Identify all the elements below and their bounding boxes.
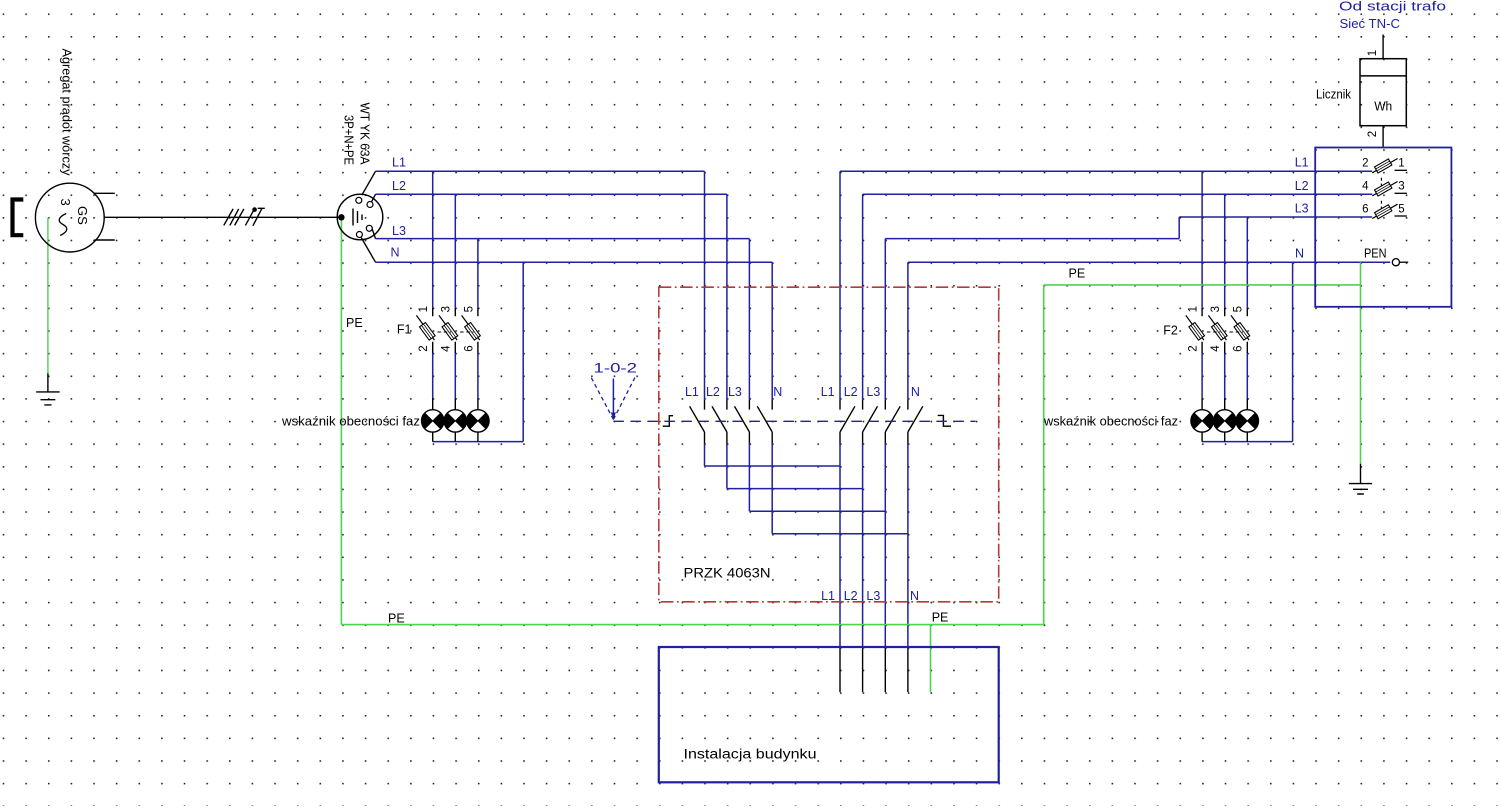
svg-text:wskaźnik obecności faz: wskaźnik obecności faz bbox=[281, 415, 420, 429]
svg-text:Wh: Wh bbox=[1374, 100, 1392, 114]
svg-text:3: 3 bbox=[1210, 306, 1222, 312]
svg-text:Agregat prądot wórczy: Agregat prądot wórczy bbox=[60, 49, 74, 177]
svg-text:PRZK 4063N: PRZK 4063N bbox=[684, 566, 771, 581]
svg-text:PEN: PEN bbox=[1364, 246, 1387, 260]
svg-text:L3: L3 bbox=[866, 589, 880, 603]
svg-text:1: 1 bbox=[1398, 158, 1404, 170]
svg-text:6: 6 bbox=[463, 345, 475, 351]
svg-text:L2: L2 bbox=[392, 179, 406, 193]
svg-text:3P+N+PE: 3P+N+PE bbox=[342, 115, 356, 165]
svg-text:N: N bbox=[773, 385, 782, 399]
svg-text:L1: L1 bbox=[1295, 155, 1309, 169]
svg-text:WT YK 63A: WT YK 63A bbox=[358, 103, 372, 166]
svg-text:3: 3 bbox=[441, 306, 453, 312]
svg-text:L2: L2 bbox=[1295, 179, 1309, 193]
svg-text:PE: PE bbox=[932, 611, 949, 625]
svg-text:3: 3 bbox=[1398, 181, 1404, 193]
svg-text:N: N bbox=[1295, 246, 1304, 260]
svg-text:3: 3 bbox=[58, 199, 73, 206]
svg-text:wskaźnik obecności faz: wskaźnik obecności faz bbox=[1043, 415, 1178, 429]
svg-text:L3: L3 bbox=[392, 224, 406, 238]
svg-text:N: N bbox=[391, 246, 400, 260]
svg-text:5: 5 bbox=[463, 306, 475, 312]
svg-text:4: 4 bbox=[1362, 181, 1369, 193]
svg-text:Od stacji trafo: Od stacji trafo bbox=[1339, 0, 1446, 14]
svg-text:1: 1 bbox=[418, 306, 430, 312]
svg-text:Sieć TN-C: Sieć TN-C bbox=[1340, 16, 1401, 31]
svg-text:L3: L3 bbox=[1295, 201, 1309, 215]
svg-text:1: 1 bbox=[1367, 50, 1379, 56]
svg-text:L3: L3 bbox=[866, 385, 880, 399]
svg-text:L1: L1 bbox=[821, 385, 835, 399]
svg-text:1-0-2: 1-0-2 bbox=[594, 361, 638, 376]
svg-text:L1: L1 bbox=[685, 385, 699, 399]
svg-text:6: 6 bbox=[1233, 345, 1245, 351]
svg-text:N: N bbox=[911, 385, 920, 399]
svg-text:N: N bbox=[910, 589, 919, 603]
svg-text:5: 5 bbox=[1398, 203, 1404, 215]
svg-text:L2: L2 bbox=[844, 385, 858, 399]
svg-text:PE: PE bbox=[1069, 267, 1086, 281]
svg-text:Instalacja budynku: Instalacja budynku bbox=[684, 747, 817, 762]
svg-text:2: 2 bbox=[1188, 345, 1200, 351]
svg-text:Licznik: Licznik bbox=[1316, 88, 1352, 102]
svg-text:L2: L2 bbox=[844, 589, 858, 603]
svg-text:L2: L2 bbox=[706, 385, 720, 399]
svg-text:6: 6 bbox=[1362, 203, 1368, 215]
svg-text:2: 2 bbox=[1367, 131, 1379, 137]
svg-text:GS: GS bbox=[75, 206, 90, 225]
svg-text:F1: F1 bbox=[397, 323, 412, 337]
svg-text:4: 4 bbox=[1210, 345, 1222, 352]
svg-text:2: 2 bbox=[1362, 158, 1368, 170]
svg-text:2: 2 bbox=[418, 345, 430, 351]
svg-text:PE: PE bbox=[346, 316, 363, 330]
svg-text:L1: L1 bbox=[821, 589, 835, 603]
svg-text:PE: PE bbox=[388, 612, 405, 626]
svg-text:F2: F2 bbox=[1163, 324, 1178, 338]
svg-text:L1: L1 bbox=[392, 155, 406, 169]
svg-text:L3: L3 bbox=[728, 385, 742, 399]
svg-text:1: 1 bbox=[1188, 306, 1200, 312]
svg-text:5: 5 bbox=[1233, 306, 1245, 312]
svg-text:4: 4 bbox=[441, 345, 453, 352]
